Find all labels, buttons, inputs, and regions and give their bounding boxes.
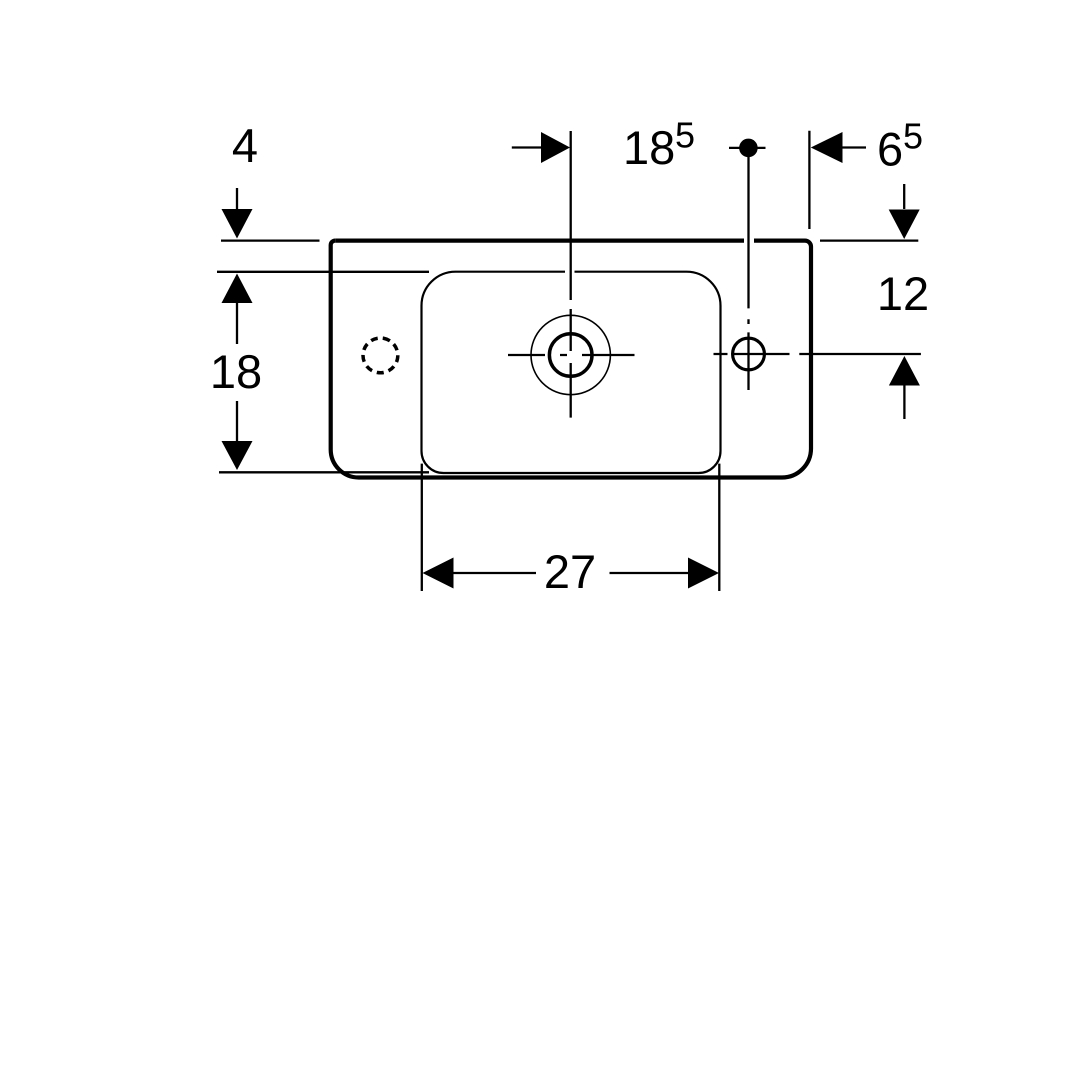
svg-text:12: 12 — [877, 267, 929, 320]
tap hole thick ring — [549, 334, 592, 377]
dimension 27: left arrow — [423, 558, 454, 589]
tap hole horizontal centerline — [508, 354, 635, 356]
svg-text:4: 4 — [232, 119, 258, 172]
dimension 18.5: right-pointing arrow — [512, 146, 542, 148]
dimension 12: top extension line — [820, 239, 918, 241]
dimension 12: down arrow — [903, 184, 905, 209]
svg-text:5: 5 — [903, 116, 923, 157]
dimension 4: down arrow — [236, 188, 238, 211]
dimension 18: top extension line — [217, 271, 429, 273]
washbasin outer outline — [335, 239, 744, 243]
right hole vertical centerline — [747, 157, 749, 390]
dimension 4: top extension line — [221, 239, 320, 241]
hole axis dot crossline — [729, 147, 766, 149]
dimension 27: right extension line — [718, 464, 720, 591]
dimension 6.5: left-pointing arrow — [811, 132, 843, 163]
dimension 27: right arrow — [610, 572, 689, 574]
dimension 27: left extension line — [421, 464, 423, 591]
dashed overflow circle — [360, 335, 400, 375]
tap hole outer thin circle — [531, 315, 610, 394]
hole axis dot — [739, 139, 758, 158]
dimension 12: up arrow — [889, 356, 920, 386]
right hole horizontal centerline — [714, 353, 790, 355]
dimension 12: bottom extension line — [799, 353, 921, 355]
svg-text:27: 27 — [544, 545, 596, 598]
dimension 18: down arrow — [236, 401, 238, 442]
svg-text:18: 18 — [623, 121, 675, 174]
right hole circle — [733, 338, 765, 370]
dimension 18: bottom extension line — [219, 471, 429, 473]
svg-text:6: 6 — [877, 123, 903, 176]
inner bowl outline — [456, 271, 566, 273]
svg-text:18: 18 — [210, 345, 262, 398]
tap hole vertical centerline — [570, 131, 572, 418]
dimension 18: up arrow — [222, 274, 253, 304]
right edge extension line (vertical) — [808, 131, 810, 229]
svg-text:5: 5 — [675, 115, 695, 156]
